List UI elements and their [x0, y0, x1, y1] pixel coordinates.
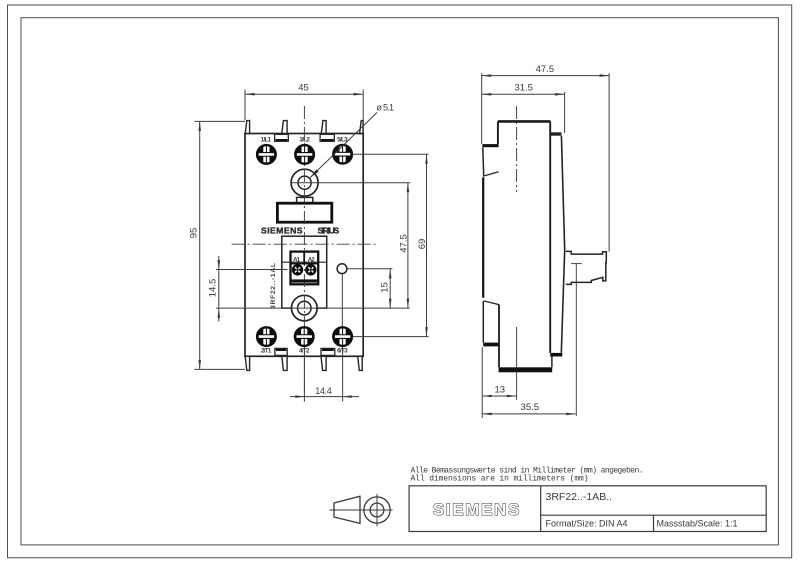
svg-text:A1: A1	[293, 257, 301, 264]
lower clip left edge	[482, 301, 484, 343]
dimension 14.5	[208, 256, 221, 322]
bottom foot 3	[321, 356, 326, 370]
dimension 45	[245, 83, 363, 96]
svg-text:3RF22..-1AL: 3RF22..-1AL	[270, 263, 277, 309]
screw 2/T1	[256, 327, 276, 347]
title block frame	[409, 486, 766, 532]
top tab 3	[321, 121, 326, 134]
svg-text:31.5: 31.5	[514, 83, 533, 94]
terminal cover rect bottom 2	[321, 348, 335, 355]
svg-text:Massstab/Scale: 1:1: Massstab/Scale: 1:1	[657, 518, 738, 528]
svg-text:SIEMENS: SIEMENS	[261, 225, 303, 235]
top tab 2	[282, 121, 287, 134]
LED indicator	[337, 264, 347, 274]
extension line lower screw row (69)	[353, 336, 429, 338]
svg-text:1/L1: 1/L1	[261, 137, 272, 144]
screw 3/L2	[295, 144, 315, 164]
dimension 13	[482, 384, 516, 397]
mounting hole bottom	[292, 295, 318, 321]
A1A2 block	[291, 252, 319, 285]
connector centerline / 35.5 ext	[575, 264, 577, 416]
mounting hole top	[291, 169, 318, 196]
dimension 15	[379, 269, 391, 308]
lower clip top slant	[484, 301, 499, 305]
dimension 14.4	[290, 386, 359, 398]
svg-text:A2: A2	[308, 257, 316, 264]
dimension 35.5	[482, 402, 576, 415]
projection symbol circles	[364, 497, 390, 523]
terminal cover rect top 1	[275, 134, 289, 141]
svg-text:5/L3: 5/L3	[337, 137, 348, 144]
extension line upper hole (47.5)	[292, 182, 411, 184]
control connector outline	[566, 251, 607, 284]
centerline horizontal A1A2 row	[232, 243, 376, 245]
projection symbol centerline h	[329, 509, 392, 511]
dimension 47.5 side	[482, 64, 609, 77]
extension line 14.5/47.5 bottom through lower hole	[216, 307, 410, 309]
extension lines 45 dim	[244, 90, 246, 121]
projection symbol cone	[334, 496, 360, 523]
svg-text:3RF22..-1AB..: 3RF22..-1AB..	[546, 491, 613, 503]
dimension 47.5 front	[398, 183, 409, 308]
svg-text:14.5: 14.5	[208, 279, 219, 298]
ext 47.5 right	[608, 73, 610, 251]
top tab 1	[245, 121, 249, 134]
centerline vertical front view	[303, 106, 305, 401]
svg-text:SIEMENS: SIEMENS	[433, 500, 520, 519]
svg-text:13: 13	[495, 384, 506, 395]
front cover edge	[561, 136, 564, 353]
front face line	[549, 121, 551, 353]
label window rect	[277, 203, 331, 222]
svg-text:14.4: 14.4	[315, 386, 332, 396]
projection symbol centerline v	[376, 494, 378, 526]
A1A2 block divider	[303, 252, 305, 264]
extension line 14.5 top	[216, 269, 288, 271]
svg-text:2/T1: 2/T1	[261, 347, 272, 354]
block dark bar	[292, 279, 318, 282]
svg-text:15: 15	[379, 282, 390, 293]
A2 screw	[305, 264, 316, 275]
pedestal rect	[297, 197, 313, 202]
body outline	[245, 134, 363, 357]
extension line upper screw row (69)	[353, 153, 429, 155]
svg-text:69: 69	[417, 239, 428, 250]
screw 5/L3	[333, 144, 353, 164]
svg-text:SIRIUS: SIRIUS	[318, 225, 340, 235]
svg-text:35.5: 35.5	[521, 402, 540, 413]
bottom foot 2	[282, 356, 287, 370]
A1 screw	[292, 264, 303, 275]
left upper edge	[497, 121, 499, 144]
svg-text:47.5: 47.5	[536, 64, 555, 75]
ext 47.5 left	[481, 73, 483, 144]
insert rect	[282, 236, 327, 308]
ext 13/35.5 left	[481, 347, 483, 418]
left lower edge	[498, 305, 500, 368]
ext 31.5 right	[564, 92, 566, 133]
centerline DIN clip	[516, 106, 518, 192]
svg-text:47.5: 47.5	[398, 234, 409, 253]
back edge	[482, 177, 484, 297]
svg-text:45: 45	[298, 83, 309, 94]
terminal cover rect bottom 1	[275, 348, 287, 355]
extension line 14.4 right column	[342, 343, 344, 402]
bottom foot 4	[358, 356, 363, 370]
dimension 69	[417, 154, 428, 336]
screw 4/T2	[294, 327, 314, 347]
svg-text:95: 95	[189, 228, 200, 239]
dimension 95	[189, 121, 201, 369]
upper clip left edge	[482, 147, 485, 176]
top tab 4	[360, 121, 364, 134]
terminal cover rect top 2	[320, 134, 334, 141]
extension line top left (95)	[195, 120, 246, 122]
bottom bar	[499, 367, 553, 372]
upper clip bottom slant	[483, 172, 499, 177]
dimension 31.5	[482, 83, 565, 96]
extension line LED row (15)	[347, 268, 392, 270]
front lower edge	[551, 357, 553, 368]
connector center tick	[571, 263, 582, 265]
svg-text:ø 5.1: ø 5.1	[377, 103, 395, 113]
cover bottom bar	[550, 353, 562, 357]
extension line LED column	[341, 274, 343, 336]
svg-text:4/T2: 4/T2	[299, 347, 310, 354]
lower clip bar	[483, 343, 499, 347]
bottom foot 1	[245, 356, 249, 370]
svg-text:6/T3: 6/T3	[337, 347, 348, 354]
upper clip ledge	[482, 144, 498, 147]
leader o5.1	[310, 103, 394, 178]
insert horizontal line	[282, 261, 327, 263]
screw 6/T3	[333, 327, 353, 347]
screw 1/L1	[256, 144, 276, 164]
extension line bottom left (95)	[195, 368, 246, 370]
svg-text:3/L2: 3/L2	[299, 137, 310, 144]
svg-text:Format/Size: DIN A4: Format/Size: DIN A4	[546, 518, 628, 528]
top-right ledge	[550, 132, 561, 135]
svg-text:All dimensions are in millimet: All dimensions are in millimeters (mm)	[411, 475, 589, 484]
top surface	[498, 120, 550, 123]
